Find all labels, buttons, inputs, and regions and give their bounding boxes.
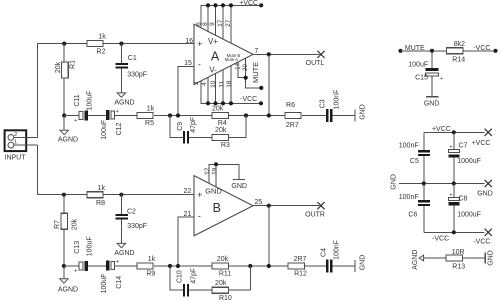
resistor R2 1k [87, 41, 103, 47]
wire C9 to R3 [189, 136, 212, 138]
svg-text:INPUT: INPUT [5, 154, 27, 161]
op-amp B top pins 12 19 to GND [209, 164, 239, 183]
resistor R13 10R [446, 255, 463, 261]
svg-text:12: 12 [204, 167, 211, 175]
capacitor C6 100nF [423, 184, 425, 201]
agnd AGND terminal (R13) [419, 255, 423, 261]
svg-text:V+: V+ [208, 37, 218, 46]
wire R6 to C3 [302, 115, 326, 117]
svg-text:R11: R11 [219, 271, 231, 278]
resistor R6 2R7 [285, 113, 301, 119]
agnd node under R1 [62, 113, 66, 117]
gnd GND (R13) [484, 252, 486, 263]
wire R12 to C4 [305, 265, 327, 267]
svg-text:8: 8 [202, 22, 209, 26]
svg-text:-: - [198, 60, 201, 70]
svg-text:+: + [440, 76, 443, 82]
mute pin 14 wire [238, 62, 246, 78]
net +VCC terminal (op-amp A top) [259, 3, 263, 7]
svg-text:-VCC: -VCC [432, 236, 449, 243]
capacitor C10 47pF [183, 284, 185, 296]
svg-text:C11: C11 [74, 94, 81, 106]
svg-text:GND: GND [359, 255, 366, 271]
svg-text:+: + [197, 190, 202, 200]
svg-text:R13: R13 [452, 264, 465, 271]
resistor R9 1k [137, 263, 153, 269]
svg-text:16: 16 [185, 38, 193, 45]
svg-text:+: + [74, 118, 77, 124]
op-amp A top supply pins 6 8 9 17 27 to +VCC [201, 5, 261, 28]
svg-text:MUTE: MUTE [251, 62, 260, 83]
svg-text:-VCC: -VCC [473, 239, 490, 246]
svg-text:20k: 20k [55, 61, 62, 73]
svg-text:100uF: 100uF [101, 120, 108, 140]
agnd AGND under C1 [117, 93, 125, 97]
svg-text:20k: 20k [215, 127, 227, 134]
op-amp U1 section B [194, 176, 253, 236]
wire C11 to C12 [88, 115, 106, 117]
wire branch to C10 [170, 266, 183, 290]
svg-text:1000uF: 1000uF [457, 211, 481, 218]
svg-text:1k: 1k [148, 256, 156, 263]
wire feedback pin21 [178, 217, 194, 266]
node C5/C6 gnd [422, 181, 426, 185]
node feedback branch [168, 113, 172, 117]
capacitor C7 1000uF [453, 132, 455, 149]
svg-text:GND: GND [205, 186, 222, 195]
svg-text:R8: R8 [96, 200, 105, 207]
wire R5 to R4 [154, 115, 212, 117]
capacitor C11 100uF [79, 111, 83, 119]
net -VCC terminal (op-amp A bottom) [259, 101, 263, 105]
node zobel junction [267, 113, 271, 117]
node junction C2 top [119, 193, 123, 197]
svg-text:GND: GND [477, 191, 493, 198]
wire input pin2 to node A1 [14, 136, 38, 138]
capacitor C2 330pF [120, 195, 122, 214]
svg-text:10: 10 [210, 80, 217, 88]
svg-text:C10: C10 [176, 270, 183, 283]
node C7/C8 gnd [452, 181, 456, 185]
svg-text:C2: C2 [127, 208, 136, 215]
gnd GND (C15) [426, 96, 438, 98]
svg-text:+: + [116, 259, 119, 265]
capacitor C8 1000uF [453, 184, 455, 198]
node junction C1 top [119, 42, 123, 46]
svg-text:100nF: 100nF [399, 194, 419, 201]
node pin15 junction [176, 113, 180, 117]
svg-text:1k: 1k [98, 34, 106, 41]
svg-text:4: 4 [201, 82, 208, 86]
wire output B down to zobel/feedback [268, 206, 270, 266]
svg-text:+VCC: +VCC [472, 140, 491, 147]
svg-text:B: B [213, 201, 221, 215]
svg-text:22: 22 [184, 188, 192, 195]
svg-text:47pF: 47pF [191, 268, 198, 284]
svg-text:GND: GND [390, 174, 397, 190]
svg-text:1k: 1k [98, 185, 106, 192]
svg-text:100uF: 100uF [408, 61, 428, 68]
svg-text:20k: 20k [217, 256, 229, 263]
svg-text:R10: R10 [219, 295, 232, 300]
wire agnd node to C13 [64, 265, 79, 267]
svg-text:R14: R14 [452, 56, 465, 63]
wire branch to C9 [170, 116, 183, 138]
node feedback branch B [168, 264, 172, 268]
svg-text:-: - [198, 211, 201, 221]
svg-text:R1: R1 [69, 60, 76, 69]
wire agnd to R13 [424, 257, 446, 259]
wire R3 up to node [229, 116, 247, 138]
capacitor C5 100nF [423, 132, 425, 150]
svg-text:R6: R6 [286, 102, 295, 109]
svg-text:AGND: AGND [58, 136, 78, 143]
svg-text:18: 18 [226, 80, 233, 88]
agnd node under R7 [62, 264, 66, 268]
resistor R12 2R7 [288, 263, 305, 269]
node zobel junction B [267, 264, 271, 268]
svg-text:14: 14 [236, 62, 242, 69]
rail +VCC [424, 131, 485, 133]
svg-text:11: 11 [218, 80, 225, 87]
svg-text:20: 20 [243, 64, 249, 71]
wire agnd node to C11 [64, 115, 79, 117]
net -VCC terminal (R14) [493, 49, 497, 53]
svg-text:Mute A: Mute A [225, 57, 239, 62]
wire feedback pin15 [178, 66, 194, 115]
wire R11 to zobel B [229, 265, 289, 267]
svg-text:20k: 20k [212, 105, 224, 112]
svg-text:R12: R12 [294, 271, 307, 278]
wire output A down to zobel/feedback [268, 54, 270, 115]
svg-text:20k: 20k [72, 218, 79, 230]
resistor R7 20k [63, 195, 65, 266]
resistor R3 20k [212, 134, 229, 140]
svg-text:100uF: 100uF [86, 91, 93, 111]
svg-text:C13: C13 [74, 241, 81, 254]
wire C12 to R5 [115, 115, 137, 117]
svg-text:AGND: AGND [58, 287, 78, 294]
svg-text:1000uF: 1000uF [457, 158, 481, 165]
capacitor C3 100nF [326, 109, 328, 122]
wire C13 to C14 [88, 265, 106, 267]
svg-text:3: 3 [193, 81, 200, 85]
svg-text:C1: C1 [128, 55, 137, 62]
svg-text:10R: 10R [452, 249, 465, 256]
svg-text:+: + [449, 144, 452, 150]
gnd GND (zobel A) [354, 110, 356, 122]
svg-text:V-: V- [209, 65, 217, 74]
svg-text:17: 17 [217, 19, 224, 27]
op-amp U1 section A [194, 24, 253, 84]
svg-text:+: + [74, 269, 77, 275]
svg-text:C3: C3 [319, 99, 326, 108]
svg-text:1: 1 [14, 139, 17, 145]
mute pin 20 wire / net MUTE stub [246, 58, 262, 88]
svg-text:OUTR: OUTR [305, 212, 325, 219]
capacitor C15 100uF [431, 51, 433, 68]
svg-text:R2: R2 [97, 49, 106, 56]
svg-text:100uF: 100uF [86, 236, 93, 256]
svg-text:100nF: 100nF [334, 240, 341, 260]
wire R9 to R11 [154, 265, 212, 267]
terminal X OUTR [317, 202, 324, 209]
svg-text:47pF: 47pF [190, 117, 197, 133]
resistor R4 20k [212, 113, 229, 119]
wire input pin1 to node B1 [14, 144, 38, 146]
svg-text:330pF: 330pF [127, 72, 147, 79]
svg-text:+: + [449, 192, 452, 198]
node C8 bottom [452, 230, 456, 234]
svg-text:2R7: 2R7 [294, 256, 307, 263]
svg-text:2R7: 2R7 [286, 122, 299, 129]
svg-text:100uF: 100uF [101, 274, 108, 294]
svg-text:20k: 20k [215, 280, 227, 287]
svg-text:GND: GND [487, 250, 494, 266]
svg-text:C15: C15 [415, 74, 428, 81]
node C7 top [452, 130, 456, 134]
gnd GND (op-amp B) [233, 178, 245, 180]
node R3 rejoin [244, 113, 248, 117]
svg-text:C14: C14 [116, 276, 123, 289]
wire R14 to -VCC stub [464, 50, 496, 52]
node output A junction [267, 52, 271, 56]
terminal X -VCC [485, 229, 492, 236]
svg-text:R5: R5 [145, 120, 154, 127]
svg-text:27: 27 [225, 19, 232, 27]
capacitor C9 47pF [183, 131, 185, 143]
terminal X +VCC [485, 129, 492, 136]
svg-text:GND: GND [424, 100, 440, 107]
capacitor C1 330pF [120, 44, 122, 63]
svg-text:AGND: AGND [412, 250, 419, 270]
wire C14 to R9 [115, 265, 137, 267]
wire op-amp B output to OUTR [253, 205, 320, 207]
svg-text:C12: C12 [116, 122, 123, 135]
net MUTE stub (right) [398, 49, 402, 53]
resistor R14 8k2 [447, 48, 464, 54]
svg-text:1k: 1k [147, 106, 155, 113]
svg-text:9: 9 [209, 22, 216, 26]
svg-text:-VCC: -VCC [240, 96, 257, 103]
wire C4 to GND [332, 265, 355, 267]
svg-text:R7: R7 [54, 220, 61, 229]
svg-text:GND: GND [359, 104, 366, 120]
capacitor C12 100uF [106, 110, 110, 120]
svg-text:+VCC: +VCC [432, 126, 451, 133]
terminal X OUTL [317, 51, 324, 58]
node R10 rejoin [248, 264, 252, 268]
node junction R7 top [62, 193, 66, 197]
svg-text:C6: C6 [408, 211, 417, 218]
svg-text:MUTE: MUTE [405, 45, 425, 52]
svg-text:100nF: 100nF [334, 90, 341, 110]
node junction R1 top [62, 42, 66, 46]
resistor R11 20k [212, 263, 229, 269]
svg-text:C9: C9 [177, 122, 184, 131]
svg-text:GND: GND [231, 183, 247, 190]
svg-text:OUTL: OUTL [306, 60, 325, 67]
wire R4 to zobel [229, 115, 286, 117]
connector X1 INPUT [5, 130, 27, 151]
resistor R8 1k [87, 192, 103, 198]
agnd AGND under C2 [117, 243, 125, 247]
wire R13 to gnd [463, 257, 486, 259]
terminal X GND [485, 180, 492, 187]
svg-text:-VCC: -VCC [473, 45, 490, 52]
svg-text:19: 19 [211, 167, 218, 175]
svg-text:C5: C5 [410, 158, 419, 165]
svg-text:25: 25 [255, 199, 263, 206]
capacitor C14 100uF [106, 260, 110, 270]
svg-text:R3: R3 [221, 142, 230, 149]
resistor R1 20k [63, 44, 65, 116]
node junction C15 [430, 49, 434, 53]
svg-text:A: A [211, 50, 220, 64]
svg-text:C8: C8 [459, 196, 468, 203]
svg-text:R4: R4 [218, 120, 227, 127]
wire C10 to R10 [189, 289, 212, 291]
svg-text:+VCC: +VCC [239, 0, 258, 7]
svg-text:R9: R9 [146, 271, 155, 278]
op-amp A bottom supply pins 3 4 10 11 18 to -VCC [201, 81, 261, 104]
capacitor C4 100nF [326, 260, 328, 273]
svg-text:100nF: 100nF [399, 142, 419, 149]
svg-text:+: + [116, 109, 119, 115]
resistor R5 1k [137, 113, 153, 119]
svg-text:C4: C4 [320, 248, 327, 257]
svg-text:AGND: AGND [114, 250, 134, 257]
wire C3 to GND [332, 115, 355, 117]
capacitor C13 100uF [79, 262, 83, 270]
svg-text:7: 7 [254, 48, 258, 55]
node pin21 junction [176, 264, 180, 268]
svg-text:+: + [197, 39, 202, 49]
svg-text:C7: C7 [459, 142, 468, 149]
wire op-amp A output to OUTL [253, 53, 320, 55]
svg-text:AGND: AGND [114, 99, 134, 106]
node output B junction [267, 204, 271, 208]
wire R10 up to node [229, 266, 251, 290]
svg-text:8k2: 8k2 [454, 41, 465, 48]
gnd GND (zobel B) [354, 260, 356, 272]
svg-text:330pF: 330pF [127, 223, 147, 230]
resistor R10 20k [212, 287, 229, 293]
rail -VCC [424, 231, 485, 233]
